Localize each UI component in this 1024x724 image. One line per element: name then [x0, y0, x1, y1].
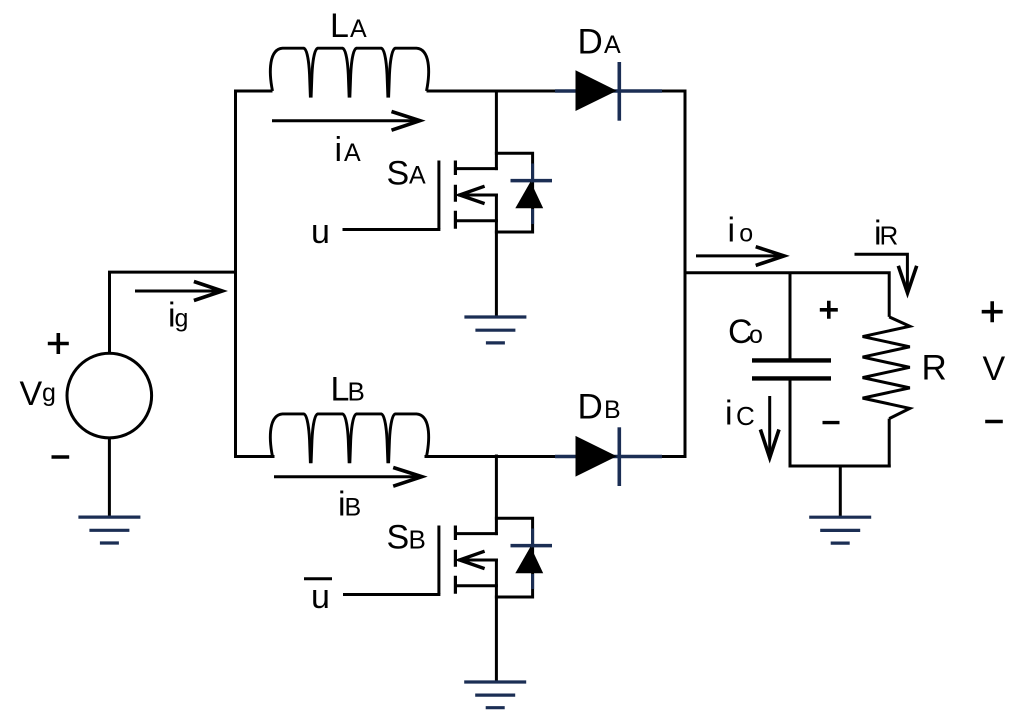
MOSFET SB body arrowhead: [460, 551, 485, 568]
label u-bar overline: [304, 577, 332, 580]
MOSFET SA source lead: [495, 194, 498, 317]
ground below output: [809, 517, 871, 543]
inductor LB: [270, 414, 428, 463]
MOSFET SA body diode cathode bar: [511, 179, 553, 183]
MOSFET SA drain tap: [455, 167, 498, 170]
inductor LA: [270, 48, 428, 97]
MOSFET SA body diode loop: [495, 153, 533, 232]
svg-text:S: S: [387, 519, 410, 557]
svg-text:A: A: [350, 15, 367, 43]
MOSFET SB body diode triangle: [515, 547, 543, 574]
wire Vg bottom lead: [108, 438, 111, 517]
svg-text:V: V: [20, 375, 43, 413]
svg-text:L: L: [330, 7, 349, 45]
label - of output: [985, 420, 1003, 423]
MOSFET SB body arrow shaft: [458, 559, 498, 562]
svg-text:B: B: [604, 396, 621, 424]
current arrow iA: [272, 119, 419, 122]
MOSFET SA source tap: [455, 219, 498, 222]
label - of capacitor: [823, 421, 840, 424]
svg-text:V: V: [983, 350, 1006, 388]
svg-text:u: u: [311, 213, 330, 251]
current arrow io: [696, 254, 783, 257]
ground below Vg: [78, 517, 140, 543]
wire left bus with top and bottom corners: [236, 91, 275, 457]
ground below SA: [464, 317, 526, 343]
svg-text:C: C: [736, 401, 755, 431]
wire top rail to right bus down to phase B rail: [425, 91, 686, 457]
MOSFET SA body diode triangle: [515, 182, 543, 209]
MOSFET SA gate wire: [343, 228, 441, 231]
MOSFET SB body diode cathode bar: [511, 544, 553, 548]
current arrow iC: [768, 396, 771, 456]
capacitor Co plates: [752, 360, 831, 378]
wire capacitor upper lead: [789, 272, 792, 359]
svg-text:A: A: [344, 139, 361, 167]
svg-text:o: o: [739, 220, 753, 248]
MOSFET SA drain lead: [495, 90, 498, 171]
diode DB triangle: [576, 436, 617, 477]
label + of output: [982, 301, 1003, 322]
svg-text:R: R: [880, 221, 899, 251]
svg-text:A: A: [604, 31, 621, 59]
svg-text:i: i: [335, 131, 343, 169]
wire output ground tap: [839, 465, 842, 517]
label + of Vg: [48, 333, 69, 354]
svg-text:B: B: [348, 377, 365, 407]
svg-text:i: i: [725, 395, 733, 433]
diode DB navy wire segment: [555, 455, 662, 458]
label - of Vg: [52, 455, 70, 458]
MOSFET SB source tap: [455, 584, 498, 587]
svg-text:S: S: [387, 155, 410, 193]
MOSFET SA body arrow shaft: [458, 194, 498, 197]
svg-text:u: u: [311, 578, 330, 616]
svg-text:B: B: [409, 525, 426, 555]
svg-text:D: D: [578, 388, 603, 427]
MOSFET SA body diode navy segments: [531, 164, 534, 225]
label + of capacitor: [820, 301, 838, 319]
MOSFET SB body diode navy segments: [531, 529, 534, 590]
MOSFET SB drain tap: [455, 532, 498, 535]
wire output bus to resistor branch: [684, 273, 890, 317]
svg-text:i: i: [728, 212, 736, 250]
MOSFET SB drain lead: [495, 455, 498, 536]
diode DA triangle: [576, 70, 617, 111]
diode DA cathode bar: [617, 62, 621, 121]
resistor R zigzag: [863, 317, 910, 419]
diode DA navy wire segment: [555, 89, 662, 92]
MOSFET SB channel dashes: [454, 526, 457, 594]
diode DB cathode bar: [617, 427, 621, 486]
svg-text:A: A: [409, 162, 426, 190]
current arrow ig: [135, 290, 221, 293]
svg-text:D: D: [578, 23, 603, 62]
MOSFET SB source lead: [495, 559, 498, 682]
MOSFET SA channel dashes: [454, 161, 457, 229]
MOSFET SB body diode loop: [495, 518, 533, 597]
svg-text:g: g: [42, 379, 56, 407]
MOSFET SA body arrowhead: [460, 186, 485, 203]
current arrow iR: [855, 254, 908, 291]
svg-text:B: B: [345, 494, 362, 522]
MOSFET SA gate bar: [437, 161, 440, 229]
MOSFET SB gate bar: [437, 526, 440, 594]
MOSFET SB gate wire: [343, 593, 440, 596]
svg-text:R: R: [922, 349, 947, 388]
current arrow iB: [274, 475, 421, 478]
wire resistor lower lead: [888, 419, 891, 468]
ground below SB: [464, 682, 526, 708]
wire Vg top to left bus: [110, 272, 237, 354]
svg-text:g: g: [175, 305, 189, 333]
svg-text:o: o: [749, 321, 763, 349]
voltage source Vg: [67, 353, 152, 438]
wire capacitor lower lead and bottom bus: [790, 380, 891, 466]
